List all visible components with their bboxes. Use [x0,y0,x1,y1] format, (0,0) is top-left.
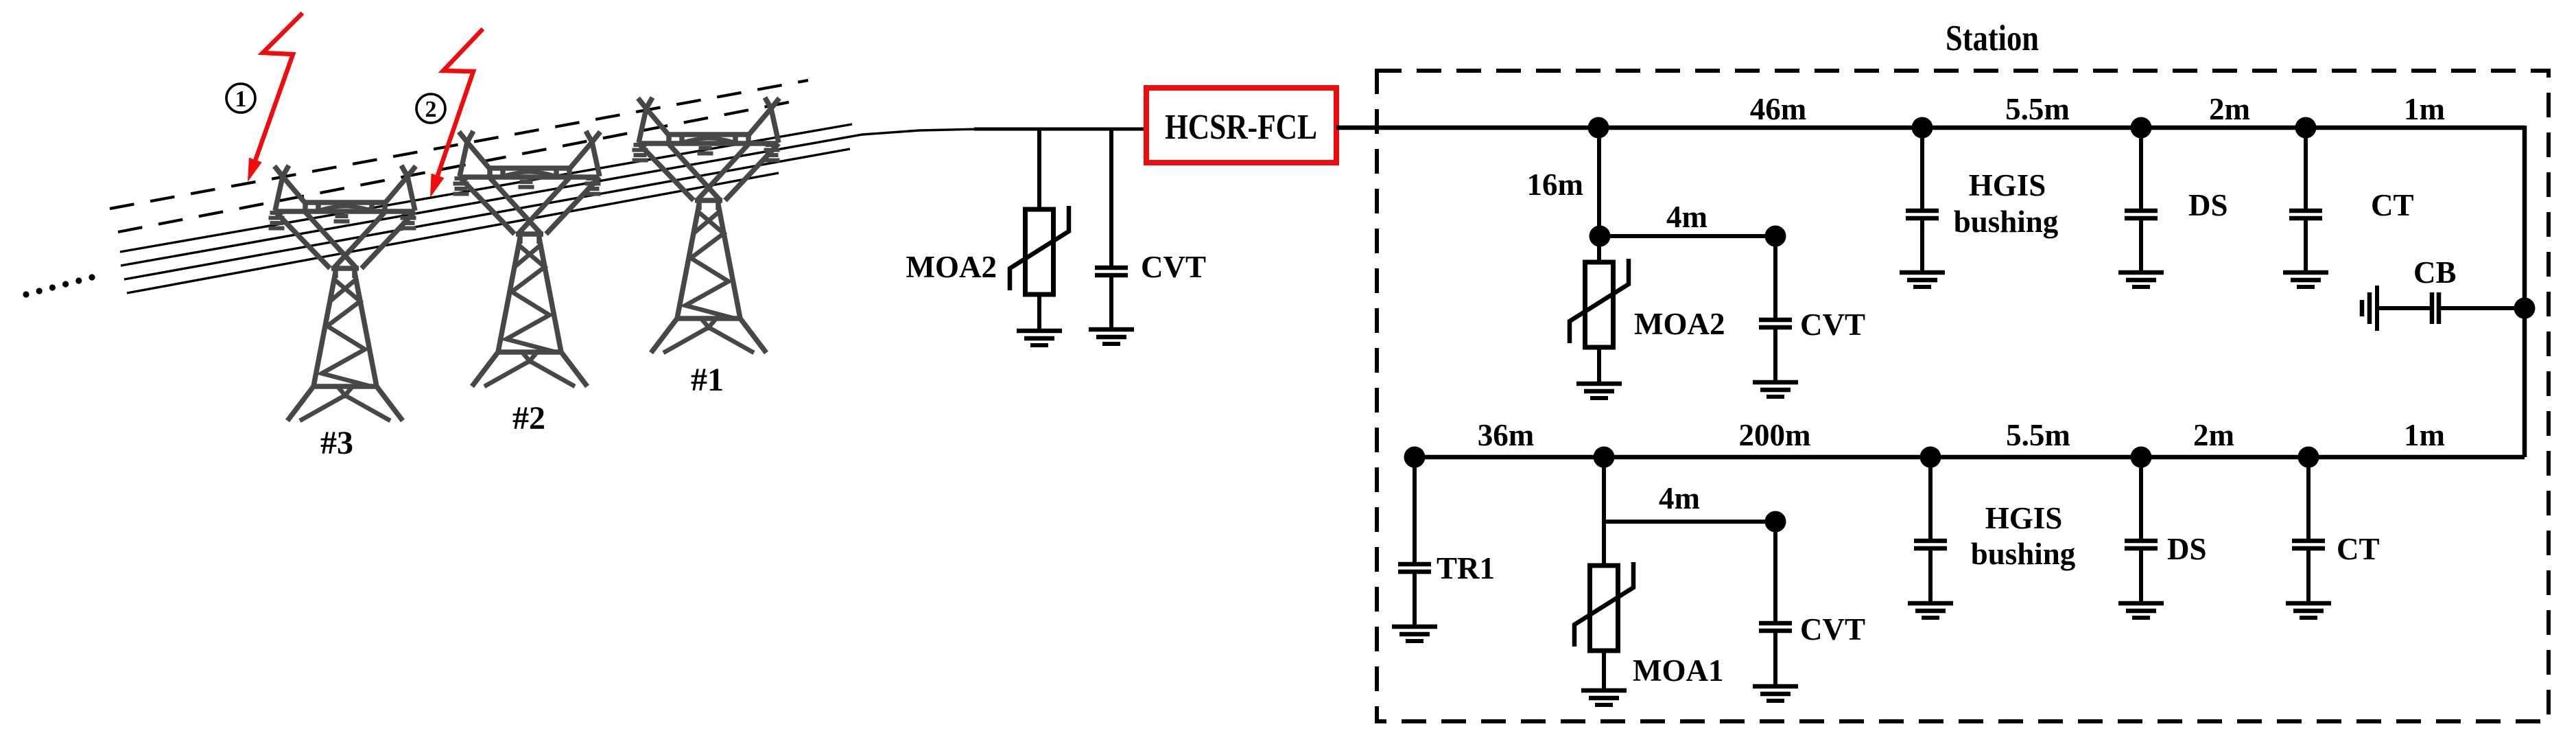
wire: top bus 2m span [2141,126,2306,130]
phase conductor 2 (continues to bus) [121,129,981,266]
capacitor CVT (line side) [1089,129,1134,344]
HCSR-FCL box [1146,88,1336,163]
capacitor TR1 [1392,457,1437,641]
svg-text:5.5m: 5.5m [2006,418,2070,452]
capacitor HGIS bushing (bottom) [1908,457,1953,618]
label 1m (top) [2404,92,2445,126]
capacitor HGIS bushing (top) [1900,128,1945,287]
label 1m (bottom) [2404,418,2445,452]
node: CT junction (bottom) [2298,447,2319,468]
svg-text:1m: 1m [2404,418,2445,452]
node: TR1 junction [1404,447,1426,468]
wire: MOA2 tap [1037,129,1041,209]
label 4m (top) [1666,200,1708,234]
svg-text:1: 1 [235,86,247,112]
wire: top bus 46m span [1598,126,1922,130]
transmission tower #2 [453,131,601,437]
svg-text:2m: 2m [2209,92,2250,126]
capacitor CB with ground (rotated) [2362,286,2525,331]
label 2m (top) [2209,92,2250,126]
capacitor CT (bottom) [2286,457,2331,618]
svg-text:bushing: bushing [1971,537,2076,571]
svg-text:HGIS: HGIS [1985,501,2063,535]
label CVT (station bottom) [1800,612,1865,647]
svg-text:CVT: CVT [1800,307,1865,342]
wire: right riser [2522,126,2527,457]
lightning stroke 1 (red arrow) [248,13,303,182]
svg-text:MOA2: MOA2 [1634,307,1725,341]
svg-text:#1: #1 [691,362,724,398]
label (2) circled [416,94,445,123]
surge arrester MOA2 (line side) [1010,129,1069,345]
label CB [2413,255,2457,290]
svg-text:HGIS: HGIS [1969,168,2046,202]
svg-text:4m: 4m [1659,481,1700,515]
station boundary (dashed) [1377,71,2549,721]
svg-text:16m: 16m [1527,167,1584,202]
wire: top bus 5.5m span [1922,126,2141,130]
node: CVT junction (top) [1765,226,1786,247]
label MOA2 (station) [1634,307,1725,341]
svg-text:bushing: bushing [1954,205,2059,239]
label HCSR-FCL [1165,108,1317,147]
label HGIS bushing (top) [1954,168,2059,239]
svg-text:MOA2: MOA2 [906,250,997,284]
capacitor DS (bottom) [2118,457,2164,618]
shield wire (dashed) 2 [118,100,799,232]
svg-text:HCSR-FCL: HCSR-FCL [1165,108,1317,147]
svg-text:TR1: TR1 [1437,551,1495,585]
label 2m (bottom) [2193,418,2234,452]
phase conductor 1 [120,124,852,252]
shield wire (dashed) 1 [110,80,808,209]
svg-text:36m: 36m [1478,418,1535,452]
label 16m [1527,167,1584,202]
svg-text:Station: Station [1946,19,2039,58]
label HGIS bushing (bottom) [1971,501,2076,571]
wire: MOA1 stem [1602,457,1606,566]
transmission tower #1 [633,97,780,398]
node: DS junction (top) [2131,117,2152,139]
node: HGIS bushing junction (bottom) [1920,447,1941,468]
surge arrester MOA2 (station) [1570,236,1629,398]
node: MOA1 junction [1594,447,1615,468]
phase conductor 4 [127,173,779,293]
svg-text:1m: 1m [2404,92,2445,126]
wire: line to HCSR-FCL [974,128,1149,131]
label Station [1946,19,2039,58]
wire: HCSR-FCL to station bus [1336,126,1598,130]
label 46m [1750,92,1807,126]
wire: CVT tap [1109,129,1113,266]
phase conductor 3 [124,149,850,279]
wire: bottom bus 2m span [2141,455,2308,460]
svg-text:200m: 200m [1739,418,1811,452]
node: HGIS bushing junction (top) [1912,117,1933,139]
svg-text:CB: CB [2413,255,2457,290]
svg-text:2: 2 [425,97,437,122]
svg-text:CVT: CVT [1800,612,1865,647]
svg-text:DS: DS [2167,532,2207,566]
svg-text:#2: #2 [512,400,545,437]
wire: bottom bus 36m span [1415,455,1604,460]
svg-text:MOA1: MOA1 [1633,653,1723,688]
label CT (top) [2371,188,2414,222]
svg-text:4m: 4m [1666,200,1708,234]
label 4m (bottom) [1659,481,1700,515]
label DS (bottom) [2167,532,2207,566]
capacitor CT (top) [2283,128,2328,287]
node: CVT junction (bottom) [1765,511,1786,533]
wire: 16m drop [1597,128,1601,236]
transmission tower #3 [269,165,416,461]
node: CT junction (top) [2295,117,2317,139]
wire: bottom bus 5.5m span [1930,455,2141,460]
label MOA2 (line side) [906,250,997,284]
label (1) circled [226,84,255,113]
svg-text:#3: #3 [320,425,353,461]
wire: bottom bus 200m span [1604,455,1930,460]
node: bus entry junction [1588,117,1609,139]
surge arrester MOA1 [1574,522,1633,705]
wire: bottom bus 1m span [2308,455,2525,460]
label CT (bottom) [2337,532,2380,566]
lightning stroke 2 (red arrow) [430,29,483,198]
label MOA1 [1633,653,1723,688]
leading dots (line continues) [23,274,95,297]
wire: 4m jumper (top) [1600,234,1775,238]
svg-text:CVT: CVT [1141,250,1206,284]
svg-text:2m: 2m [2193,418,2234,452]
capacitor CVT (station bottom) [1753,522,1798,701]
node: DS junction (bottom) [2131,447,2152,468]
node: MOA2 junction [1590,226,1611,247]
svg-text:5.5m: 5.5m [2005,92,2070,126]
label 36m [1478,418,1535,452]
svg-text:CT: CT [2371,188,2414,222]
label CVT (station top) [1800,307,1865,342]
label 5.5m (top) [2005,92,2070,126]
label 5.5m (bottom) [2006,418,2070,452]
wire: 4m jumper (bottom) [1604,520,1775,524]
svg-text:CT: CT [2337,532,2380,566]
label TR1 [1437,551,1495,585]
capacitor DS (top) [2118,128,2164,287]
label CVT (line side) [1141,250,1206,284]
wire: top bus 1m span [2306,126,2525,130]
node: CB junction [2514,298,2536,319]
svg-text:46m: 46m [1750,92,1807,126]
label DS (top) [2188,188,2228,222]
capacitor CVT (station top) [1753,236,1798,397]
svg-text:DS: DS [2188,188,2228,222]
label 200m [1739,418,1811,452]
